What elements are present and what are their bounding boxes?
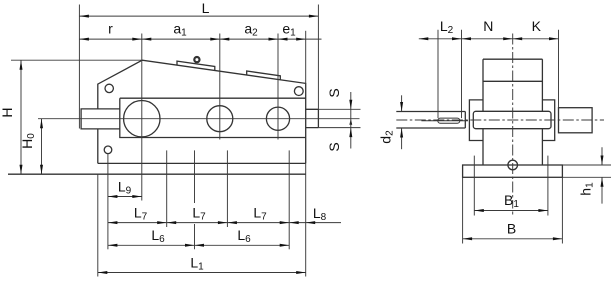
svg-text:L9: L9 — [118, 178, 132, 196]
dimension L6 chain — [108, 244, 289, 246]
extension line right shaft end — [317, 5, 319, 110]
svg-text:L6: L6 — [151, 227, 165, 245]
svg-text:B: B — [507, 221, 516, 237]
dimension L1 — [98, 272, 306, 274]
roof pad 2 — [247, 71, 281, 80]
flange bolt centerline 2 — [166, 150, 168, 227]
keyway slot — [438, 118, 460, 123]
flange bolt centerline 3 — [194, 150, 196, 203]
side view output shaft — [559, 108, 593, 133]
axis 3 centerline — [277, 34, 279, 140]
dimension L7 chain — [108, 222, 341, 224]
dimension B — [463, 238, 563, 240]
svg-text:N: N — [483, 18, 493, 34]
extension keyway right — [461, 30, 463, 118]
left view housing outline — [98, 60, 306, 163]
dimension L — [79, 15, 318, 17]
svg-text:e1: e1 — [282, 20, 296, 38]
svg-text:L6: L6 — [237, 227, 251, 245]
svg-text:d2: d2 — [378, 130, 396, 144]
breather plug — [194, 57, 199, 62]
side view right bearing block — [542, 100, 554, 141]
flange center hole — [508, 160, 518, 170]
svg-text:L1: L1 — [190, 254, 204, 272]
flange bolt centerline left — [473, 156, 475, 216]
svg-text:a2: a2 — [244, 20, 258, 38]
dimension d2 — [401, 95, 403, 111]
main horizontal centerline — [38, 118, 360, 120]
face bolt hole lower left — [104, 146, 112, 154]
svg-text:H: H — [0, 107, 15, 117]
flange bolt centerline right — [547, 156, 549, 216]
face bolt hole upper right — [294, 87, 303, 96]
left view base line — [8, 173, 306, 175]
output shaft — [306, 109, 319, 127]
roof pad 1 — [177, 61, 215, 70]
axis 2 centerline — [219, 34, 221, 140]
dimension row r a1 a2 e1 — [79, 38, 321, 40]
dimension H — [20, 60, 22, 174]
side view vertical centerline — [512, 34, 514, 209]
side view top box cap line — [483, 58, 542, 60]
side view housing wall left — [482, 59, 484, 111]
dimension L9 — [108, 196, 142, 198]
svg-text:S: S — [326, 88, 342, 97]
svg-text:B1: B1 — [504, 192, 519, 210]
extension flange left edge — [97, 174, 99, 276]
flange bolt centerline 5 — [288, 150, 290, 249]
left view flange top line — [98, 162, 306, 164]
svg-text:a1: a1 — [173, 20, 187, 38]
flange bolt centerline 1 — [107, 154, 109, 250]
S extension lines — [318, 108, 360, 110]
extension line housing right edge — [305, 31, 307, 84]
svg-text:L7: L7 — [253, 204, 267, 222]
bearing bore 2 — [207, 106, 233, 132]
axis 1 centerline — [141, 34, 143, 201]
svg-text:L7: L7 — [192, 204, 206, 222]
svg-text:h1: h1 — [578, 182, 596, 196]
svg-text:H0: H0 — [19, 133, 37, 149]
svg-text:L8: L8 — [313, 205, 327, 223]
side view housing wall right — [541, 59, 543, 111]
extension output shaft shoulder — [558, 30, 560, 108]
flange bolt centerline 4 — [226, 150, 228, 227]
h1 extension lines — [562, 164, 611, 166]
face bolt hole upper left — [105, 84, 113, 92]
key centerline — [421, 120, 468, 122]
svg-text:L2: L2 — [440, 18, 454, 36]
extension keyway left — [437, 30, 439, 118]
extension line left shaft end — [78, 5, 80, 129]
side view left bearing block — [469, 100, 483, 141]
dimension S upper — [350, 92, 352, 119]
extension flange right — [561, 177, 563, 243]
side view horizontal centerline — [396, 119, 604, 121]
dimension row L2 N K — [419, 38, 559, 40]
side view shaft boss slab — [473, 111, 551, 128]
dimension H extension top — [11, 59, 142, 61]
svg-text:K: K — [532, 18, 542, 34]
left view bearing band — [120, 98, 306, 137]
dimension H0 — [41, 119, 43, 175]
extension flange right edge — [305, 163, 307, 276]
dimension B1 — [474, 210, 548, 212]
svg-text:r: r — [108, 20, 113, 36]
svg-text:S: S — [326, 142, 342, 151]
bearing bore 1 — [124, 101, 160, 137]
side view flange — [463, 165, 563, 177]
svg-text:L: L — [202, 0, 210, 16]
side view input shaft — [396, 112, 465, 129]
extension flange left — [462, 177, 464, 243]
bearing bore 3 — [266, 107, 289, 130]
output shaft end face — [317, 109, 319, 127]
dimension S lower — [350, 119, 352, 149]
svg-text:L7: L7 — [134, 204, 148, 222]
side view top box joint line — [483, 80, 542, 82]
dimension h1 — [601, 147, 603, 165]
input shaft — [81, 109, 120, 129]
